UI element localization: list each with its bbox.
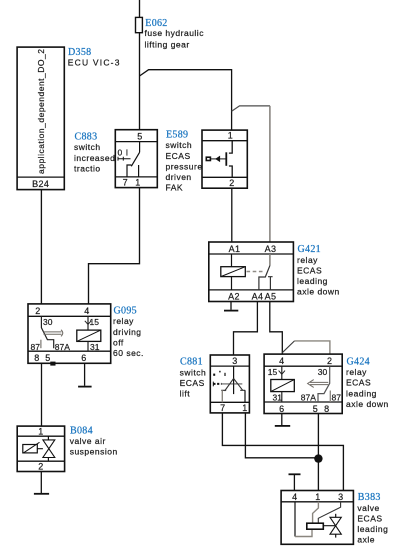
svg-text:87A: 87A [55, 342, 70, 352]
junction dot [314, 454, 322, 462]
svg-text:increased: increased [74, 153, 115, 163]
svg-text:FAK: FAK [166, 183, 184, 193]
ground at G095 pin 6 [78, 386, 92, 388]
svg-text:ECU VIC-3: ECU VIC-3 [68, 58, 121, 68]
svg-text:87A: 87A [301, 393, 316, 403]
label C881 switch ECAS lift [180, 357, 207, 399]
svg-text:axle down: axle down [346, 399, 389, 409]
E589 pressure actuator square and arrow [206, 157, 210, 160]
svg-text:A4: A4 [252, 291, 264, 301]
wire bridge G424 pin 4 to pin 2 (diagonal) [282, 341, 294, 353]
wire G424 pin 5 through junction to B383 pin 1 [317, 414, 319, 491]
label G095 relay driving off 60 sec. [113, 306, 144, 358]
svg-text:G095: G095 [114, 306, 137, 317]
svg-text:ECAS: ECAS [346, 378, 371, 388]
label G421 relay ECAS leading axle down [297, 244, 340, 296]
svg-text:7: 7 [123, 177, 128, 187]
svg-text:B084: B084 [70, 425, 93, 436]
C881 position marks [213, 371, 225, 376]
svg-text:31: 31 [273, 393, 283, 403]
svg-text:lift: lift [180, 389, 191, 399]
svg-text:6: 6 [279, 404, 284, 414]
svg-text:I: I [126, 147, 128, 157]
svg-text:valve: valve [357, 503, 379, 513]
wire G421 A5 to G424 pin 4 [270, 302, 283, 355]
svg-text:87: 87 [31, 342, 41, 352]
svg-text:0: 0 [118, 147, 123, 157]
svg-text:E589: E589 [166, 130, 188, 141]
switch C883 contact blade [127, 142, 140, 177]
label B084 valve air suspension [70, 425, 118, 456]
changeover contact of G421 [259, 254, 273, 290]
svg-text:relay: relay [346, 367, 367, 377]
svg-text:ECAS: ECAS [297, 265, 322, 275]
wire supply vertical from top to fuse [139, 0, 141, 17]
svg-text:A3: A3 [265, 244, 277, 254]
relay G095 [28, 304, 111, 363]
switch C883 [115, 130, 157, 188]
svg-text:tractio: tractio [74, 163, 101, 173]
wire G421 A2 to ground [230, 302, 232, 310]
svg-text:4: 4 [279, 356, 284, 366]
svg-text:8: 8 [34, 353, 39, 363]
dashed actuation link of G421 [247, 271, 265, 273]
svg-text:4: 4 [84, 306, 89, 316]
junction square at G095 pin 5 [50, 362, 55, 366]
svg-text:driving: driving [113, 327, 142, 337]
svg-text:1: 1 [135, 177, 140, 187]
svg-text:2: 2 [38, 462, 43, 472]
svg-text:8: 8 [324, 404, 329, 414]
wire fuse to C883 pin 5 [139, 33, 141, 130]
coil of relay G095 with 15 arrow [77, 316, 101, 351]
svg-text:30: 30 [318, 367, 328, 377]
G095 contact: common from pin 2 with blade [41, 316, 53, 348]
svg-text:axle: axle [357, 535, 375, 545]
svg-text:leading: leading [297, 276, 328, 286]
G095 contact 87 stub [40, 340, 42, 349]
wire branch fuse to E589 pin 1 [140, 70, 232, 130]
wire B24 to G095 pin 2 [40, 190, 42, 304]
svg-text:switch: switch [180, 367, 207, 377]
svg-text:1: 1 [315, 492, 320, 502]
wire E589 pin 2 to G421 A1 [231, 188, 233, 242]
svg-text:2: 2 [229, 178, 234, 188]
svg-text:1: 1 [228, 131, 233, 141]
B383 coil [307, 523, 324, 529]
detent symbol of C883 [118, 157, 131, 161]
svg-text:30: 30 [43, 317, 53, 327]
wire B084 pin 2 to ground [40, 472, 42, 494]
svg-text:off: off [113, 337, 124, 347]
svg-text:1: 1 [38, 426, 43, 436]
svg-text:fuse hydraulic: fuse hydraulic [145, 28, 205, 38]
svg-text:15: 15 [268, 367, 278, 377]
wire G095 pin 6 to ground [84, 363, 86, 386]
G424 contact double strip with left arrow [308, 380, 329, 388]
svg-text:5: 5 [313, 404, 318, 414]
svg-text:valve air: valve air [70, 436, 106, 446]
svg-text:A5: A5 [265, 291, 277, 301]
E589 contact bar and feet [229, 141, 232, 178]
pressure switch E589 [202, 130, 247, 188]
wire G095 pin 8 to B084 pin 1 [41, 363, 43, 426]
valve B084 [17, 426, 64, 471]
svg-text:leading: leading [346, 388, 377, 398]
svg-text:switch: switch [74, 142, 101, 152]
svg-text:relay: relay [113, 316, 134, 326]
label E589 switch ECAS pressure driven FAK [166, 130, 203, 193]
wire C883 pin 1 to G095 pin 4 [89, 188, 140, 304]
relay G424 [264, 354, 342, 413]
svg-text:B383: B383 [358, 492, 381, 503]
svg-text:3: 3 [338, 492, 343, 502]
svg-text:87: 87 [332, 393, 342, 403]
svg-text:B24: B24 [32, 179, 49, 189]
svg-text:relay: relay [297, 255, 318, 265]
wire C881 pin 7 to B383 pin 3 [222, 413, 343, 491]
label D358 ECU VIC-3 [68, 47, 121, 67]
wire bridge gray run to G424 pin 2 [295, 341, 330, 354]
wire G424 pin 6 to ground [281, 414, 283, 426]
svg-text:G421: G421 [298, 244, 321, 255]
svg-text:4: 4 [292, 492, 297, 502]
svg-text:axle down: axle down [297, 287, 340, 297]
svg-text:5: 5 [45, 353, 50, 363]
svg-text:C881: C881 [180, 357, 203, 368]
wire G421 A4 to C881 pin 3 [234, 302, 258, 356]
svg-text:switch: switch [166, 140, 193, 150]
svg-text:application_dependent_DO_2: application_dependent_DO_2 [36, 49, 46, 174]
svg-text:leading: leading [357, 524, 388, 534]
svg-text:ECAS: ECAS [166, 151, 191, 161]
svg-text:pressure: pressure [166, 161, 203, 171]
svg-text:6: 6 [81, 353, 86, 363]
G424 contact 87 stub [329, 391, 331, 403]
label B383 valve ECAS leading axle [357, 492, 388, 544]
wire gray vertical to G421 A3 [269, 106, 271, 242]
svg-text:A2: A2 [228, 291, 240, 301]
B383 gray wire to coil bottom [295, 529, 312, 536]
B383 coil to bowtie link [323, 525, 335, 527]
B084 valve bowtie [43, 436, 55, 461]
ground at B084 pin 2 [34, 493, 49, 495]
wire C881 pin 1 to junction [245, 413, 318, 458]
G424 contact: common from pin 2 with blade [318, 366, 330, 402]
svg-text:suspension: suspension [70, 447, 118, 457]
coil of relay G424 with 15 arrow [271, 366, 295, 402]
B383 wire pin 4 down [294, 502, 296, 537]
label E062 fuse hydraulic lifting gear [145, 18, 205, 49]
label G424 relay ECAS leading axle down [346, 357, 389, 409]
svg-text:7: 7 [220, 403, 225, 413]
ECU box B24 (D358) [17, 47, 64, 190]
relay G421 [209, 242, 294, 302]
G095 contact double strip with hook [44, 330, 63, 337]
C881 actuator dashed line [213, 382, 242, 387]
coil of relay G421 [221, 254, 246, 290]
svg-text:lifting gear: lifting gear [145, 40, 190, 50]
svg-text:2: 2 [327, 356, 332, 366]
C881 rocker contact [221, 366, 245, 402]
svg-text:G424: G424 [347, 357, 370, 368]
ground at G424 pin 6 [275, 425, 290, 427]
B084 solenoid [23, 442, 43, 453]
wire branch to G421 A3 (dark horizontal) [232, 106, 270, 111]
svg-text:driven: driven [166, 172, 192, 182]
svg-text:A1: A1 [229, 244, 241, 254]
valve B383 [281, 491, 353, 545]
fuse E062 [136, 17, 143, 32]
svg-text:3: 3 [232, 356, 237, 366]
switch C881 [210, 355, 249, 413]
ground (inverted) at B383 pin 4 [289, 474, 301, 490]
B383 valve bowtie [330, 514, 341, 538]
B383 wire pin 3 diagonal to coil [318, 502, 340, 523]
svg-text:60 sec.: 60 sec. [113, 348, 144, 358]
svg-text:C883: C883 [75, 132, 98, 143]
svg-text:D358: D358 [68, 47, 91, 58]
svg-text:1: 1 [242, 403, 247, 413]
svg-text:ECAS: ECAS [180, 378, 205, 388]
svg-text:31: 31 [90, 342, 100, 352]
svg-text:ECAS: ECAS [357, 513, 382, 523]
B383 gray wire pin 1 to coil top [313, 502, 319, 523]
svg-text:2: 2 [35, 306, 40, 316]
ground at G421 A2 [224, 310, 238, 312]
svg-text:5: 5 [137, 132, 142, 142]
label C883 switch increased tractio [74, 132, 115, 174]
